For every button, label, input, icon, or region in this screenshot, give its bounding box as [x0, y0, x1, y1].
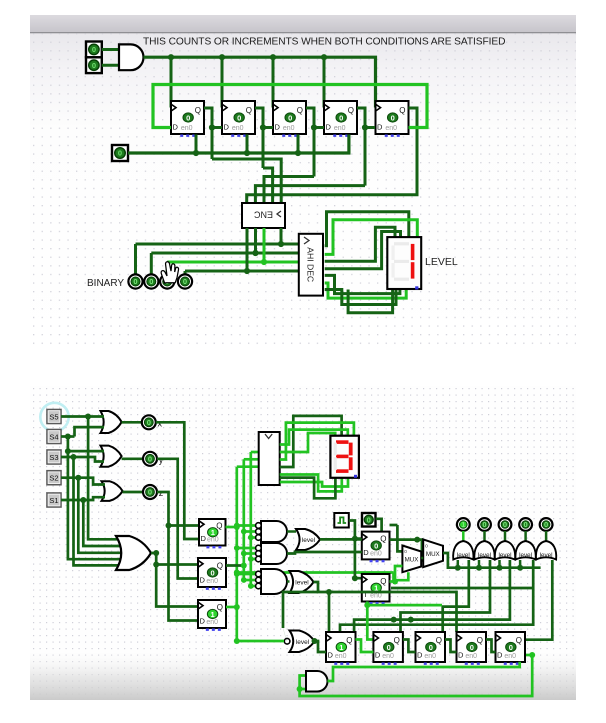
node encoder bit0 junction: [244, 268, 250, 274]
node FF4 Q junction: [362, 124, 368, 130]
svg-text:0: 0: [524, 520, 528, 529]
wire select rail: [237, 571, 394, 574]
node trunk tap 2: [241, 529, 247, 535]
D flip-flop FFm2: [198, 558, 226, 590]
output pin BINARY bit3 (0): [128, 274, 142, 288]
svg-text:S1: S1: [49, 496, 58, 505]
wire FFr1 Q to FFr2 D: [356, 640, 374, 653]
node FF3 Q junction: [311, 124, 317, 130]
svg-text:Q: Q: [516, 636, 522, 645]
wire FFc1 Q out: [390, 538, 418, 541]
wire z to FFm3 D: [169, 526, 199, 621]
svg-text:0: 0: [503, 520, 507, 529]
input pin S1: [47, 493, 61, 507]
wire encoder bit1 bus: [167, 261, 299, 264]
wire cross link upper: [391, 587, 533, 590]
svg-text:en0: en0: [232, 125, 244, 132]
svg-text:D: D: [173, 123, 179, 132]
constant pin (0): [362, 513, 376, 527]
wire FF1 Q output: [204, 108, 212, 159]
wire level2 output: [314, 582, 457, 632]
node clock junction 1: [168, 54, 174, 60]
wire FF3 Q to encoder pin: [264, 177, 314, 204]
svg-text:level: level: [519, 552, 532, 559]
enable bus wire: [128, 135, 349, 154]
svg-text:Q: Q: [346, 636, 352, 645]
wire DEC2 seg loop 3: [280, 430, 348, 445]
wire DEC2 seg loop 4: [280, 433, 336, 452]
svg-text:en0: en0: [385, 125, 397, 132]
D flip-flop FFm3: [198, 600, 226, 631]
node spacer: [283, 628, 287, 641]
svg-text:1: 1: [210, 610, 214, 619]
svg-text:en0: en0: [207, 537, 219, 544]
node level bus junction 3: [497, 565, 503, 571]
wire level gate 2 output: [483, 531, 486, 541]
wire trunk 1 vertical: [249, 452, 252, 586]
node trunk tap 8: [241, 577, 247, 583]
svg-text:0: 0: [92, 61, 96, 70]
node FFm3 Q junction: [234, 604, 240, 610]
subcircuit level L1: [296, 529, 320, 550]
wire S2 to big OR in3: [78, 478, 127, 553]
wire FF2 Q to FF3 D: [263, 126, 273, 129]
wire clock to FFc1: [355, 537, 362, 540]
output pin x (0): [142, 415, 156, 429]
T flip-flop FFc2: [362, 574, 390, 604]
svg-text:D: D: [326, 123, 332, 132]
svg-text:en0: en0: [335, 653, 347, 660]
svg-text:en0: en0: [283, 125, 295, 132]
wire trunk tap 6 to AND input: [251, 558, 257, 561]
wire FF3 Q to FF4 D: [314, 126, 324, 129]
svg-text:THIS COUNTS OR INCREMENTS WHEN: THIS COUNTS OR INCREMENTS WHEN BOTH COND…: [143, 37, 505, 48]
wire big OR to FFm2 clock: [156, 563, 198, 566]
svg-text:D: D: [275, 123, 281, 132]
wire trunk to decoder in3: [237, 465, 259, 468]
wire FF1 Q to FF2 D: [212, 126, 222, 129]
node FFm2 Q junction: [241, 563, 247, 569]
wire encoder output bit1 drop: [263, 228, 266, 262]
svg-text:D: D: [200, 576, 206, 585]
wire encoder bit2 bus: [151, 252, 298, 255]
wire S3 to big OR in5: [74, 457, 125, 565]
svg-text:level: level: [457, 552, 470, 559]
wire DEC2 seg loop 7: [280, 478, 336, 499]
wire encoder output bit2 drop: [254, 228, 257, 253]
D flip-flop FFr1: [326, 632, 356, 665]
wire decoder seg-f loop: [325, 283, 407, 298]
wire FF4 Q output: [357, 108, 365, 186]
wire enable to FF2: [246, 135, 249, 154]
selection halo around S5: [40, 403, 68, 431]
wire z to FFm1 clock: [157, 492, 199, 526]
svg-text:0: 0: [544, 520, 548, 529]
svg-text:D: D: [328, 651, 334, 660]
svg-text:en0: en0: [370, 593, 382, 600]
D flip-flop FF1: [171, 101, 204, 137]
wire clock drop to FF1: [170, 57, 173, 107]
svg-text:0: 0: [470, 643, 474, 652]
wire S2 to G3: [61, 478, 105, 485]
node bright rail junction: [364, 602, 370, 608]
input pin S5: [47, 410, 61, 424]
decoder AHI DEC: [299, 234, 323, 296]
wire clock drop to FF2: [221, 57, 224, 107]
svg-text:Q: Q: [477, 636, 483, 645]
wire decoder seg-dp loop: [348, 289, 393, 313]
node FFc1 Q junction: [414, 537, 420, 543]
wire level gate 1 left input: [457, 560, 460, 568]
AND gate A3: [256, 569, 287, 594]
wire pin A to AND gate: [102, 48, 119, 51]
output pin BINARY bit0 (0): [178, 274, 192, 288]
svg-text:1: 1: [339, 643, 343, 652]
gate level G4: [515, 541, 535, 560]
wire trunk tap 2 to AND input: [244, 530, 257, 533]
svg-text:S5: S5: [49, 412, 58, 421]
wire trunk tap 3 to AND input: [251, 536, 257, 539]
svg-text:0: 0: [118, 149, 122, 158]
node level3 out: [312, 638, 318, 644]
wire S3 to G2: [61, 457, 104, 462]
wire level gate 3 output: [504, 531, 507, 541]
wire decoder seg-a loop: [325, 212, 409, 246]
wire decoder seg-b loop: [325, 220, 418, 255]
svg-text:D: D: [200, 617, 206, 626]
node trunk select tap: [234, 570, 240, 576]
node nest junction a: [391, 617, 397, 623]
wire nest 4: [340, 560, 533, 632]
wire encoder bit3 bus: [136, 243, 299, 246]
svg-text:MUX: MUX: [405, 557, 419, 564]
wire trunk tap 8 to AND input: [244, 579, 257, 582]
wire FF3 Q output: [306, 108, 314, 177]
wire S1 to big OR in2: [83, 500, 126, 546]
gate level G1: [453, 541, 473, 560]
node bottom AND junction: [297, 686, 303, 692]
wire decoder seg-d loop: [325, 232, 401, 269]
mouse hand cursor: [161, 262, 178, 283]
wire bit0 to BINARY pin: [184, 271, 187, 275]
svg-text:0: 0: [367, 515, 371, 524]
svg-text:D: D: [377, 123, 383, 132]
output pin BINARY bit1 (0): [160, 274, 174, 288]
svg-text:level: level: [540, 552, 553, 559]
node encoder bit1 junction: [261, 259, 267, 265]
wire nest 1: [443, 560, 469, 632]
wire decoder seg-c loop: [325, 227, 395, 261]
svg-text:1: 1: [461, 520, 465, 529]
input pin enable (0): [112, 145, 128, 161]
svg-text:en0: en0: [424, 653, 436, 660]
node z clock junction: [166, 523, 172, 529]
wire A2 to FFc1 D: [287, 552, 362, 554]
node big OR branch junction: [153, 562, 159, 568]
svg-text:D: D: [497, 651, 503, 660]
wire constant to FFc1: [376, 519, 382, 532]
wire FF2 Q to encoder pin: [263, 168, 273, 203]
svg-text:Q: Q: [399, 106, 405, 115]
decoder DEC2: [259, 432, 280, 485]
svg-text:0: 0: [210, 568, 214, 577]
wire MUX2 output bus: [443, 553, 541, 568]
svg-text:Q: Q: [297, 106, 303, 115]
svg-text:Q: Q: [436, 636, 442, 645]
node trunk tap 7: [234, 571, 240, 577]
wire A4 output enable return: [328, 662, 520, 681]
wire S4 to big OR in4: [68, 437, 126, 560]
wire S1 to G3: [61, 497, 105, 500]
wire trunk tap 1 to AND input: [237, 524, 257, 527]
wire big OR output to FFm3 clock: [151, 553, 198, 607]
wire bottom bright feedback loop: [300, 655, 533, 696]
D flip-flop FFr3: [416, 632, 446, 665]
node S5 junction: [85, 414, 91, 420]
wire MUX1 in1: [397, 525, 402, 551]
node level2 branch: [326, 589, 332, 595]
svg-text:level: level: [295, 580, 309, 587]
wire FFm2 Q to trunk: [226, 564, 244, 567]
wire level2 to FFr1: [328, 592, 331, 632]
svg-text:en0: en0: [181, 125, 193, 132]
AND gate A2: [256, 543, 287, 564]
wire trunk to decoder in1: [251, 451, 259, 454]
svg-text:0: 0: [149, 277, 153, 286]
svg-text:0: 0: [387, 643, 391, 652]
wire S5 to big OR in1: [88, 417, 124, 540]
node enable junction 1: [193, 150, 199, 156]
wire MUX1 out to MUX2: [421, 557, 423, 560]
node S3 junction: [71, 454, 77, 460]
input pin S3: [47, 450, 61, 464]
node trunk level3 junction: [234, 638, 240, 644]
node trunk tap 5: [241, 551, 247, 557]
node trunk tap 6: [248, 556, 254, 562]
svg-text:en0: en0: [206, 578, 218, 585]
svg-text:level: level: [499, 552, 512, 559]
svg-text:ENC: ENC: [254, 210, 274, 220]
wire bit2 to BINARY pin: [150, 253, 153, 275]
svg-text:0: 0: [509, 643, 513, 652]
svg-text:D: D: [201, 534, 207, 543]
output pin z (0): [143, 485, 157, 499]
svg-text:D: D: [375, 651, 381, 660]
node S2 junction: [75, 475, 81, 481]
wire decoder seg-e loop: [325, 275, 400, 293]
wire bit3 to BINARY pin: [134, 244, 137, 275]
node clock junction 2: [219, 54, 225, 60]
svg-text:D: D: [224, 123, 230, 132]
node FF1 Q junction: [209, 124, 215, 130]
svg-text:0: 0: [183, 277, 187, 286]
wire trunk tap 5 to AND input: [244, 552, 257, 555]
input pin A (0): [86, 42, 102, 58]
gate level G3: [495, 541, 515, 560]
svg-text:0: 0: [148, 488, 152, 497]
wire FFc2 Q to MUX1 in2: [390, 566, 403, 582]
wire FF2 Q output: [255, 108, 263, 168]
svg-text:0: 0: [133, 277, 137, 286]
node encoder bit2 junction: [252, 250, 258, 256]
output pin level5 (0): [540, 518, 553, 531]
wire clock trunk: [349, 521, 362, 579]
input pin B (0): [86, 57, 102, 73]
wire FF4 Q to encoder pin: [255, 186, 365, 203]
canvas background top section: [30, 15, 576, 347]
node level bus junction 2: [476, 565, 482, 571]
svg-text:Q: Q: [380, 535, 386, 544]
gate level G2: [474, 541, 494, 560]
OR gate G1 (x): [101, 411, 122, 433]
svg-text:en0: en0: [370, 550, 382, 557]
wire FF1 Q to encoder pin: [212, 159, 281, 203]
subcircuit level L2: [290, 571, 314, 593]
clock source CLK: [334, 513, 349, 528]
node S4 branch junction: [65, 448, 71, 454]
wire S4 to G1: [75, 427, 105, 436]
svg-text:S2: S2: [49, 474, 58, 483]
multiplexer MUX2: [423, 539, 443, 567]
node trunk tap 3: [248, 535, 254, 541]
svg-text:0: 0: [92, 45, 96, 54]
wire G3 to z pin: [123, 491, 143, 494]
gate level G5: [536, 541, 556, 560]
wire FF5 Q to encoder pin: [247, 108, 417, 203]
svg-text:en0: en0: [465, 653, 477, 660]
svg-text:0: 0: [429, 643, 433, 652]
wire DEC2 seg loop 1: [280, 416, 342, 467]
wire bottom AND in2: [300, 688, 306, 691]
node encoder bit3 junction: [278, 241, 284, 247]
svg-text:AHI DEC: AHI DEC: [306, 247, 316, 282]
svg-text:0: 0: [391, 113, 395, 122]
wire enable to FF3: [297, 135, 300, 154]
wire FFc1 north to MUX1: [390, 524, 398, 527]
wire trunk 3 vertical: [235, 467, 238, 641]
svg-text:Q: Q: [348, 106, 354, 115]
svg-text:en0: en0: [382, 653, 394, 660]
node trunk tap 4: [234, 545, 240, 551]
svg-text:S4: S4: [49, 432, 58, 441]
D flip-flop FFm1: [199, 519, 226, 548]
wire encoder output bit0 drop: [246, 228, 249, 271]
wire S5 to G1: [61, 415, 104, 418]
wire bright rail: [367, 604, 442, 607]
wire FFr2 Q to FFr3 D: [403, 640, 416, 653]
node enable junction 2: [244, 150, 250, 156]
wire MUX1 select loop: [394, 572, 409, 580]
wire level2 branch: [283, 592, 318, 628]
wire trunk tap 4 to AND input: [237, 547, 257, 550]
wire level1 to FFc1 D... no to clock row: [320, 538, 362, 541]
input pin S4: [47, 430, 61, 444]
wire DEC2 seg loop 2: [280, 423, 354, 460]
node nest junction b: [408, 617, 414, 623]
output pin level4 (0): [519, 518, 532, 531]
7-segment display 2 (showing 3): [330, 436, 359, 478]
node FFm1 Q junction: [234, 524, 240, 530]
node level bus junction 1: [455, 565, 461, 571]
D flip-flop FF2: [222, 101, 255, 137]
svg-text:0: 0: [237, 113, 241, 122]
canvas background bottom section: [30, 386, 576, 700]
svg-text:Q: Q: [217, 603, 223, 612]
svg-text:level: level: [302, 537, 316, 544]
node trunk tap 9: [248, 583, 254, 589]
svg-text:en0: en0: [334, 125, 346, 132]
D flip-flop FF3: [273, 101, 306, 137]
wire trunk tap 7 to AND input: [237, 573, 257, 576]
wire FFm1 Q to trunk: [226, 526, 237, 529]
wire nest 2: [401, 560, 491, 632]
svg-text:level: level: [478, 552, 491, 559]
AND gate A1: [256, 521, 287, 542]
svg-text:en0: en0: [504, 653, 516, 660]
svg-text:0: 0: [425, 543, 428, 549]
node FFc2 Q junction: [392, 579, 398, 585]
wire level gate 1 output: [462, 531, 465, 541]
D flip-flop FFr4: [457, 632, 487, 665]
wire A3 to level2: [287, 580, 290, 583]
node S4 junction: [65, 434, 71, 440]
input pin S2: [47, 471, 61, 485]
node clock tap FFc1: [352, 536, 358, 542]
multiplexer MUX1: [402, 546, 421, 573]
wire A1 to level1: [287, 530, 296, 533]
node level bus junction 4: [517, 565, 523, 571]
wire FFc2 south to FFr2 clock: [367, 602, 373, 640]
wire level gate 5 output: [545, 531, 548, 541]
AND gate U1: [119, 44, 143, 70]
wire FFr3 Q to FFr4 D: [445, 640, 457, 653]
node trunk tap 1: [234, 523, 240, 529]
svg-text:0: 0: [339, 113, 343, 122]
wire G1 to x pin: [122, 421, 142, 424]
encoder ENC: [242, 203, 285, 228]
clock bus wire: [144, 57, 376, 107]
wire level3 to FFr1 D: [315, 641, 327, 652]
wire nest 5 to FFr5 Q: [526, 560, 553, 640]
wire decoder seg-g loop: [325, 289, 396, 305]
D flip-flop FFr2: [373, 632, 403, 665]
wire level gate 2 left input: [478, 560, 481, 568]
svg-text:Q: Q: [195, 106, 201, 115]
svg-text:S3: S3: [49, 453, 58, 462]
svg-text:0: 0: [186, 113, 190, 122]
svg-text:Q: Q: [246, 106, 252, 115]
wire trunk tap 9 to AND input: [251, 585, 257, 588]
wire S4 out: [61, 435, 75, 438]
wire trunk 2 vertical: [242, 459, 245, 580]
wire FFr5 inverted-Q stub: [525, 654, 532, 657]
wire S4 branch to G2: [68, 450, 104, 453]
AND gate A4 (bottom): [306, 671, 327, 692]
node clock junction 4: [321, 54, 327, 60]
output pin level3 (0): [499, 518, 512, 531]
svg-text:0: 0: [482, 520, 486, 529]
OR gate G3 (z): [102, 481, 123, 501]
svg-text:0: 0: [288, 113, 292, 122]
D flip-flop FFr5: [496, 632, 526, 665]
wire DEC2 seg loop 6: [280, 478, 348, 487]
wire level gate 4 output: [524, 531, 527, 541]
output pin level1 (1): [457, 518, 470, 531]
D flip-flop FF5: [376, 101, 409, 137]
subcircuit level L3: [284, 631, 314, 653]
D flip-flop FFc1: [362, 532, 390, 563]
wire clock drop to FF4: [323, 57, 326, 107]
